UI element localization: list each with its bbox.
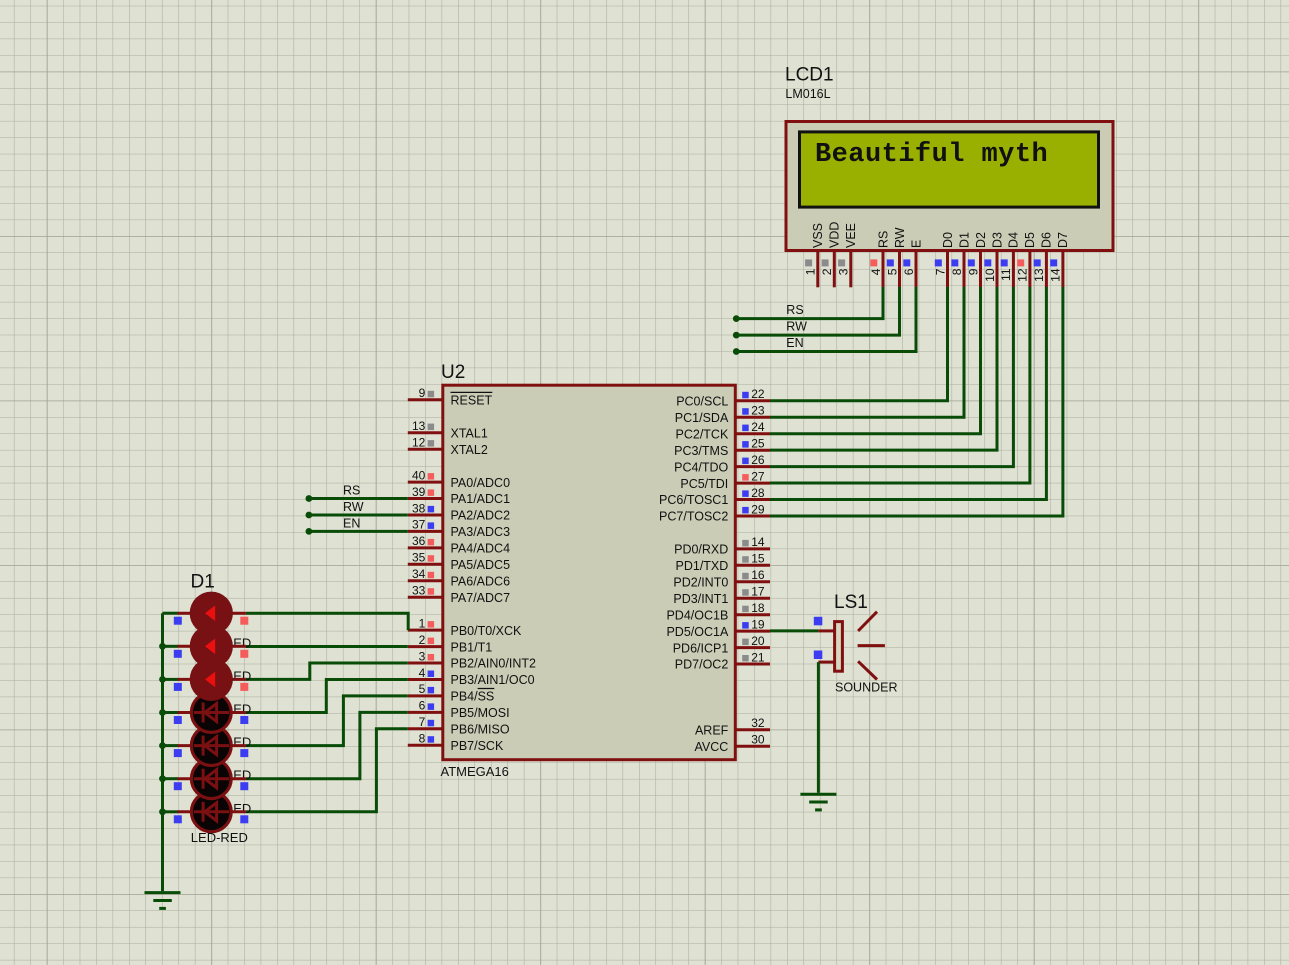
- wire bus to LED6 anode: [163, 777, 179, 780]
- junction bus/LED5: [159, 742, 166, 749]
- microcontroller U2 reference label: [441, 362, 465, 383]
- U2 pin 29 (PC7/TOSC2): [659, 502, 770, 523]
- U2 pin 26 (PC4/TDO): [674, 453, 770, 474]
- svg-text:D2: D2: [974, 232, 988, 248]
- svg-text:RW: RW: [343, 500, 364, 514]
- LED bank D1 reference label: [191, 572, 215, 593]
- svg-text:PD2/INT0: PD2/INT0: [673, 576, 728, 590]
- wire net EN to U2 pin 37: [309, 530, 408, 533]
- svg-text:14: 14: [1049, 268, 1063, 282]
- wire LED4 to U2 pin 4: [246, 680, 408, 713]
- LED D1.1 value label tail 'ED': [233, 635, 251, 650]
- svg-text:27: 27: [751, 469, 765, 483]
- svg-text:9: 9: [419, 386, 426, 400]
- svg-text:21: 21: [751, 650, 765, 664]
- U2 pin 14 (PD0/RXD): [674, 535, 770, 556]
- svg-text:RW: RW: [786, 320, 807, 334]
- svg-text:ATMEGA16: ATMEGA16: [441, 764, 509, 779]
- svg-text:2: 2: [820, 268, 834, 275]
- U2 value label ATMEGA16: [441, 764, 509, 779]
- LCD1 pin 11 (D4): [999, 232, 1021, 287]
- LED D1.1 (lit) LED-RED: [178, 592, 246, 635]
- LED D1.6 value label tail 'ED': [233, 801, 251, 816]
- svg-text:PD6/ICP1: PD6/ICP1: [673, 641, 729, 655]
- net label RS: [343, 484, 360, 498]
- LCD1 pin 10 (D3): [983, 232, 1005, 287]
- svg-text:9: 9: [966, 268, 980, 275]
- svg-text:1: 1: [419, 616, 426, 630]
- LED D1.5 (off) LED-RED: [178, 726, 246, 766]
- svg-text:ED: ED: [233, 635, 251, 650]
- svg-text:30: 30: [751, 733, 765, 747]
- U2 pin 34 (PA6/ADC6): [408, 567, 510, 588]
- junction bus/LED3: [159, 676, 166, 683]
- U2 pin 32 (AREF): [695, 716, 770, 737]
- svg-text:22: 22: [751, 387, 765, 401]
- wire LED3 to U2 pin 3: [246, 663, 408, 679]
- wire net RS to U2 pin 39: [309, 497, 408, 500]
- svg-text:PA6/ADC6: PA6/ADC6: [451, 575, 511, 589]
- LCD1 pin 3 (VEE): [837, 223, 859, 287]
- U2 pin 2 (PB1/T1): [408, 633, 492, 654]
- wire LED1 to U2 pin 1: [246, 613, 408, 630]
- svg-text:PA1/ADC1: PA1/ADC1: [451, 492, 511, 506]
- svg-text:6: 6: [419, 699, 426, 713]
- U2 pin 15 (PD1/TXD): [676, 552, 770, 573]
- svg-text:PA2/ADC2: PA2/ADC2: [451, 509, 511, 523]
- U2 pin 21 (PD7/OC2): [675, 650, 770, 671]
- U2 pin 33 (PA7/ADC7): [408, 584, 510, 605]
- svg-text:PC7/TOSC2: PC7/TOSC2: [659, 510, 728, 524]
- svg-text:4: 4: [419, 666, 426, 680]
- svg-text:PD7/OC2: PD7/OC2: [675, 658, 729, 672]
- U2 pin 36 (PA4/ADC4): [408, 534, 510, 555]
- svg-text:ED: ED: [233, 768, 251, 783]
- wire LS1 bottom terminal to ground: [817, 662, 820, 793]
- wire U2 pin 19 to LS1 top terminal: [770, 629, 818, 632]
- U2 pin 6 (PB5/MOSI): [408, 699, 510, 720]
- LCD1 pin 6 (E): [902, 240, 924, 288]
- svg-text:RS: RS: [343, 484, 360, 498]
- svg-text:2: 2: [419, 633, 426, 647]
- svg-text:AVCC: AVCC: [694, 740, 728, 754]
- wire D5 from LCD pin 12 to U2 pin 27: [770, 287, 1030, 483]
- U2 pin 16 (PD2/INT0): [673, 568, 770, 589]
- LCD1 value label LM016L: [785, 87, 830, 101]
- LCD1 pin 13 (D6): [1032, 232, 1054, 287]
- wire bus to LED7 anode: [163, 810, 179, 813]
- svg-text:D6: D6: [1040, 232, 1054, 248]
- wire D0 from LCD pin 7 to U2 pin 22: [770, 287, 948, 401]
- svg-text:6: 6: [902, 268, 916, 275]
- wire D6 from LCD pin 13 to U2 pin 28: [770, 287, 1046, 500]
- junction bus/LED6: [159, 775, 166, 782]
- U2 pin 25 (PC3/TMS): [674, 437, 770, 458]
- U2 pin 13 (XTAL1): [408, 419, 488, 440]
- LCD1 pin 8 (D1): [950, 232, 972, 287]
- svg-text:D1: D1: [957, 232, 971, 248]
- LED D1.2 value label tail 'ED': [233, 668, 251, 683]
- LED D1.4 (off) LED-RED: [178, 693, 246, 733]
- U2 pin 30 (AVCC): [694, 733, 770, 754]
- svg-text:RESET: RESET: [451, 394, 493, 408]
- LED D1.6 terminal squares: [174, 782, 249, 790]
- svg-text:16: 16: [751, 568, 765, 582]
- LCD1 pin 14 (D7): [1049, 232, 1071, 287]
- U2 pin 40 (PA0/ADC0): [408, 468, 510, 489]
- svg-text:32: 32: [751, 716, 765, 730]
- wire LED cathode bus vertical: [161, 613, 164, 891]
- svg-text:12: 12: [1016, 268, 1030, 282]
- U2 pin 12 (XTAL2): [408, 436, 488, 457]
- svg-text:PA3/ADC3: PA3/ADC3: [451, 525, 511, 539]
- junction dot EN wire end: [306, 528, 313, 535]
- junction dot RS wire end: [733, 315, 740, 322]
- junction dot RS wire end: [306, 495, 313, 502]
- svg-text:20: 20: [751, 634, 765, 648]
- svg-text:RS: RS: [786, 303, 803, 317]
- U2 pin 3 (PB2/AIN0/INT2): [408, 649, 536, 670]
- net label EN: [343, 517, 360, 531]
- svg-text:PA4/ADC4: PA4/ADC4: [451, 542, 511, 556]
- U2 pin 9 (RESET): [408, 386, 493, 407]
- LED D1.5 terminal squares: [174, 749, 249, 757]
- svg-text:25: 25: [751, 437, 765, 451]
- svg-text:36: 36: [412, 534, 426, 548]
- wire net EN from LCD pin 6: [736, 287, 916, 352]
- svg-text:AREF: AREF: [695, 724, 729, 738]
- svg-text:24: 24: [751, 420, 765, 434]
- svg-text:XTAL2: XTAL2: [451, 443, 488, 457]
- U2 pin 37 (PA3/ADC3): [408, 518, 510, 539]
- LED D1.3 (lit) LED-RED: [178, 658, 246, 701]
- wire bus to LED3 anode: [163, 678, 179, 681]
- svg-text:39: 39: [412, 485, 426, 499]
- svg-text:PC3/TMS: PC3/TMS: [674, 444, 728, 458]
- svg-text:D7: D7: [1056, 232, 1070, 248]
- svg-text:PA7/ADC7: PA7/ADC7: [451, 591, 511, 605]
- svg-text:3: 3: [837, 268, 851, 275]
- wire LED7 to U2 pin 7: [246, 729, 408, 812]
- LCD1 screen text 'Beautiful myth': [815, 140, 1048, 170]
- svg-text:VEE: VEE: [844, 223, 858, 248]
- svg-text:8: 8: [950, 268, 964, 275]
- svg-text:12: 12: [412, 436, 426, 450]
- svg-text:PD4/OC1B: PD4/OC1B: [666, 608, 728, 622]
- svg-text:8: 8: [419, 732, 426, 746]
- svg-text:7: 7: [419, 715, 426, 729]
- junction dot RW wire end: [306, 512, 313, 519]
- wire net RS from LCD pin 4: [736, 287, 883, 319]
- svg-text:LM016L: LM016L: [785, 87, 830, 101]
- svg-text:33: 33: [412, 584, 426, 598]
- svg-text:35: 35: [412, 551, 426, 565]
- svg-text:15: 15: [751, 552, 765, 566]
- svg-text:PB3/AIN1/OC0: PB3/AIN1/OC0: [451, 673, 535, 687]
- LED D1.2 terminal squares: [174, 650, 249, 658]
- svg-text:18: 18: [751, 601, 765, 615]
- wire LED6 to U2 pin 6: [246, 712, 408, 778]
- svg-text:PB5/MOSI: PB5/MOSI: [451, 706, 510, 720]
- sounder LS1 reference label: [834, 592, 868, 613]
- svg-text:26: 26: [751, 453, 765, 467]
- LED D1.3 terminal squares: [174, 683, 249, 691]
- svg-text:19: 19: [751, 617, 765, 631]
- svg-text:10: 10: [983, 268, 997, 282]
- svg-text:RS: RS: [876, 231, 890, 248]
- wire LED2 to U2 pin 2: [246, 645, 408, 648]
- ground symbol for LS1: [800, 794, 836, 810]
- svg-text:5: 5: [885, 268, 899, 275]
- svg-text:PB7/SCK: PB7/SCK: [451, 739, 504, 753]
- U2 pin 1 (PB0/T0/XCK): [408, 616, 522, 637]
- svg-text:PC6/TOSC1: PC6/TOSC1: [659, 493, 728, 507]
- svg-text:34: 34: [412, 567, 426, 581]
- LED D1.1 terminal squares: [174, 617, 249, 625]
- U2 pin 22 (PC0/SCL): [676, 387, 770, 408]
- LED D1.4 terminal squares: [174, 716, 249, 724]
- svg-text:D0: D0: [941, 232, 955, 248]
- svg-text:ED: ED: [233, 702, 251, 717]
- LCD1 pin 2 (VDD): [820, 222, 842, 288]
- svg-text:EN: EN: [343, 517, 360, 531]
- junction bus/LED7: [159, 808, 166, 815]
- wire D1 from LCD pin 8 to U2 pin 23: [770, 287, 964, 417]
- svg-text:PC2/TCK: PC2/TCK: [676, 427, 729, 441]
- U2 pin 24 (PC2/TCK): [676, 420, 770, 441]
- svg-text:13: 13: [412, 419, 426, 433]
- U2 pin 7 (PB6/MISO): [408, 715, 510, 736]
- wire D2 from LCD pin 9 to U2 pin 24: [770, 287, 981, 434]
- junction bus/LED2: [159, 643, 166, 650]
- sounder LS1 body: [814, 612, 885, 680]
- svg-text:PA5/ADC5: PA5/ADC5: [451, 558, 511, 572]
- wire LED5 to U2 pin 5: [246, 696, 408, 746]
- LCD1 pin 12 (D5): [1016, 232, 1038, 287]
- svg-text:PB0/T0/XCK: PB0/T0/XCK: [451, 624, 523, 638]
- wire bus to LED5 anode: [163, 744, 179, 747]
- svg-text:PC1/SDA: PC1/SDA: [675, 411, 729, 425]
- svg-text:11: 11: [999, 268, 1013, 281]
- svg-text:17: 17: [751, 585, 765, 599]
- U2 pin 4 (PB3/AIN1/OC0): [408, 666, 535, 687]
- svg-text:EN: EN: [786, 336, 803, 350]
- svg-text:1: 1: [804, 268, 818, 275]
- svg-text:SOUNDER: SOUNDER: [835, 681, 898, 695]
- wire net RW from LCD pin 5: [736, 287, 899, 335]
- LED D1.4 value label tail 'ED': [233, 735, 251, 750]
- U2 pin 19 (PD5/OC1A): [666, 617, 770, 638]
- svg-text:29: 29: [751, 502, 765, 516]
- U2 pin 5 (PB4/SS): [408, 682, 495, 703]
- LCD1 body: [786, 122, 1113, 251]
- LCD1 pin 9 (D2): [966, 232, 988, 287]
- svg-text:13: 13: [1032, 268, 1046, 282]
- svg-text:PB1/T1: PB1/T1: [451, 640, 493, 654]
- wire bus to LED1 anode: [163, 612, 179, 615]
- svg-text:PD5/OC1A: PD5/OC1A: [666, 625, 728, 639]
- svg-text:Beautiful myth: Beautiful myth: [815, 140, 1048, 170]
- svg-text:7: 7: [933, 268, 947, 275]
- svg-text:PC5/TDI: PC5/TDI: [680, 477, 728, 491]
- LCD1 pin 1 (VSS): [804, 223, 826, 287]
- svg-text:3: 3: [419, 649, 426, 663]
- U2 pin 27 (PC5/TDI): [680, 469, 770, 490]
- svg-text:4: 4: [869, 268, 883, 275]
- svg-text:PC4/TDO: PC4/TDO: [674, 460, 728, 474]
- ground symbol for LED bus: [145, 893, 181, 909]
- U2 body: [443, 385, 736, 760]
- LCD1 pin 5 (RW): [885, 227, 907, 287]
- LCD display LCD1 reference label: [785, 65, 834, 86]
- LED D1.5 value label tail 'ED': [233, 768, 251, 783]
- svg-text:ED: ED: [233, 668, 251, 683]
- LED D1.3 value label tail 'ED': [233, 702, 251, 717]
- LED D1.7 terminal squares: [174, 815, 249, 823]
- svg-text:23: 23: [751, 404, 765, 418]
- svg-text:VSS: VSS: [811, 223, 825, 248]
- U2 pin 28 (PC6/TOSC1): [659, 486, 770, 507]
- junction dot RW wire end: [733, 332, 740, 339]
- svg-text:ED: ED: [233, 801, 251, 816]
- svg-text:D4: D4: [1007, 232, 1021, 248]
- net label RS: [786, 303, 803, 317]
- U2 pin 8 (PB7/SCK): [408, 732, 504, 753]
- svg-text:37: 37: [412, 518, 426, 532]
- svg-text:14: 14: [751, 535, 765, 549]
- svg-text:5: 5: [419, 682, 426, 696]
- net label RW: [343, 500, 364, 514]
- svg-text:PD3/INT1: PD3/INT1: [673, 592, 728, 606]
- wire D4 from LCD pin 11 to U2 pin 26: [770, 287, 1013, 467]
- U2 pin 18 (PD4/OC1B): [666, 601, 770, 622]
- wire bus to LED2 anode: [163, 645, 179, 648]
- U2 pin 39 (PA1/ADC1): [408, 485, 510, 506]
- svg-text:28: 28: [751, 486, 765, 500]
- svg-text:PB2/AIN0/INT2: PB2/AIN0/INT2: [451, 657, 536, 671]
- svg-text:RW: RW: [893, 227, 907, 248]
- svg-text:PA0/ADC0: PA0/ADC0: [451, 476, 511, 490]
- svg-text:ED: ED: [233, 735, 251, 750]
- wire bus to LED4 anode: [163, 711, 179, 714]
- svg-text:PB4/SS: PB4/SS: [451, 690, 495, 704]
- U2 pin 35 (PA5/ADC5): [408, 551, 510, 572]
- svg-text:LS1: LS1: [834, 592, 868, 613]
- LED D1.2 (lit) LED-RED: [178, 625, 246, 668]
- svg-text:40: 40: [412, 468, 426, 482]
- svg-text:XTAL1: XTAL1: [451, 426, 488, 440]
- LCD1 pin 7 (D0): [933, 232, 955, 287]
- junction dot EN wire end: [733, 348, 740, 355]
- svg-text:PB6/MISO: PB6/MISO: [451, 723, 510, 737]
- svg-text:D5: D5: [1023, 232, 1037, 248]
- svg-text:38: 38: [412, 501, 426, 515]
- svg-text:PD1/TXD: PD1/TXD: [676, 559, 729, 573]
- net label EN: [786, 336, 803, 350]
- svg-text:E: E: [909, 240, 923, 248]
- svg-text:PD0/RXD: PD0/RXD: [674, 543, 728, 557]
- wire net RW to U2 pin 38: [309, 514, 408, 517]
- net label RW: [786, 320, 807, 334]
- U2 pin 17 (PD3/INT1): [673, 585, 770, 606]
- svg-text:VDD: VDD: [828, 222, 842, 248]
- svg-text:LED-RED: LED-RED: [191, 830, 248, 845]
- U2 pin 38 (PA2/ADC2): [408, 501, 510, 522]
- svg-text:PC0/SCL: PC0/SCL: [676, 395, 728, 409]
- wire D3 from LCD pin 10 to U2 pin 25: [770, 287, 997, 450]
- U2 pin 23 (PC1/SDA): [675, 404, 770, 425]
- svg-text:U2: U2: [441, 362, 465, 383]
- LED D1.7 (off) LED-RED: [178, 792, 246, 832]
- LS1 value label SOUNDER: [835, 681, 898, 695]
- wire D7 from LCD pin 14 to U2 pin 29: [770, 287, 1063, 516]
- U2 pin 20 (PD6/ICP1): [673, 634, 770, 655]
- LED bank value label LED-RED: [191, 830, 248, 845]
- svg-text:D3: D3: [990, 232, 1004, 248]
- LED D1.6 (off) LED-RED: [178, 759, 246, 799]
- LCD1 pin 4 (RS): [869, 231, 891, 288]
- junction bus/LED4: [159, 709, 166, 716]
- LCD1 screen: [800, 132, 1099, 207]
- svg-text:LCD1: LCD1: [785, 65, 834, 86]
- svg-text:D1: D1: [191, 572, 215, 593]
